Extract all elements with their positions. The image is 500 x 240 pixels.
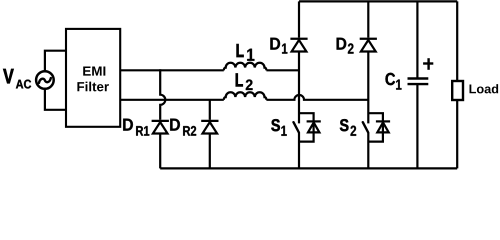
switch S2 blade bbox=[363, 122, 368, 132]
inductor L2 bbox=[224, 92, 267, 100]
wire DR1 anode to bottom rail bbox=[159, 134, 161, 169]
label EMI Filter bbox=[83, 67, 105, 76]
load resistor box bbox=[452, 81, 463, 100]
wire source top bbox=[45, 51, 66, 72]
label L2 bbox=[236, 73, 243, 86]
label L1 bbox=[237, 44, 244, 57]
EMI filter box bbox=[66, 29, 120, 127]
wire top rail to D2 bbox=[367, 1, 369, 37]
label S1 bbox=[271, 119, 280, 131]
bottom rail bbox=[160, 167, 457, 169]
capacitor C1 bbox=[408, 79, 429, 85]
S2 body-diode loop bbox=[368, 113, 383, 141]
source VAC circle bbox=[36, 71, 54, 89]
label DR2 bbox=[170, 119, 180, 131]
wire DR2 anode to bottom rail bbox=[209, 134, 211, 169]
label S2 bbox=[340, 119, 349, 131]
inductor L1 bbox=[224, 63, 267, 71]
wire node A down to DR1 with hop over wire B bbox=[160, 69, 165, 120]
diode D1 bbox=[290, 39, 307, 52]
wire top rail to D1 bbox=[298, 1, 300, 37]
plus polarity mark bbox=[423, 58, 433, 70]
switch S1 blade bbox=[294, 122, 299, 132]
source VAC sine bbox=[39, 78, 51, 83]
diode D2 bbox=[360, 39, 377, 52]
wire top rail to C1 bbox=[416, 1, 418, 78]
S2 body diode bbox=[376, 121, 390, 132]
diode DR2 bbox=[201, 121, 218, 134]
S1 body-diode loop bbox=[299, 113, 314, 141]
wire L2 to node D2/S2 with hop over D1/S1 vertical bbox=[266, 95, 368, 100]
label C1 bbox=[386, 73, 396, 85]
label DR1 bbox=[123, 119, 133, 131]
label VAC bbox=[3, 69, 13, 83]
wire C1 to bottom rail bbox=[416, 84, 418, 168]
wire D1 anode down through L1 node to S1 bbox=[298, 52, 300, 124]
label Load bbox=[470, 84, 499, 93]
wire D2 anode down through L2 node to S2 bbox=[367, 52, 369, 124]
wire S2 bottom to rail bbox=[367, 133, 369, 169]
wire load to bottom rail bbox=[456, 100, 458, 168]
top rail bbox=[299, 0, 457, 2]
wire top rail to load bbox=[456, 1, 458, 81]
wire source bottom bbox=[45, 89, 66, 110]
wire B: EMI bottom output to L2 bbox=[120, 99, 224, 101]
wire DR2 cathode to wire B bbox=[209, 100, 211, 120]
wire S1 bottom to rail bbox=[298, 133, 300, 169]
label D2 bbox=[337, 38, 347, 50]
diode DR1 bbox=[152, 121, 169, 134]
label D1 bbox=[270, 38, 280, 50]
S1 body diode bbox=[307, 121, 321, 132]
wire A: EMI top output to L1 bbox=[120, 69, 224, 71]
wire L1 to node D1/S1 bbox=[266, 69, 299, 71]
